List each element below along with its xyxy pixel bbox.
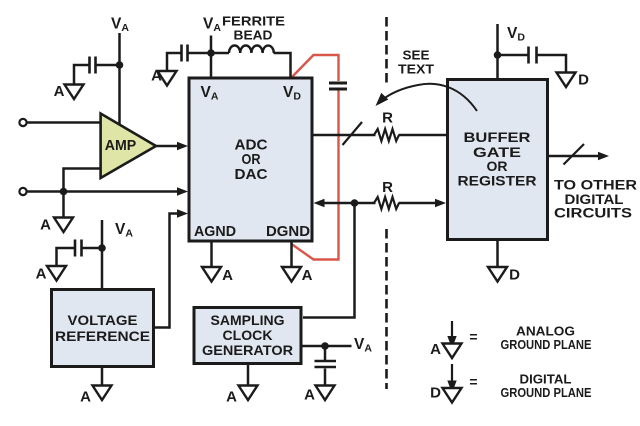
svg-text:GROUND PLANE: GROUND PLANE [501, 385, 592, 400]
svg-text:SEE: SEE [403, 48, 430, 63]
svg-text:A: A [430, 341, 441, 358]
svg-text:AMP: AMP [105, 137, 137, 154]
svg-text:DAC: DAC [235, 166, 268, 183]
svg-text:A: A [80, 389, 91, 406]
svg-text:=: = [469, 329, 477, 345]
svg-text:REFERENCE: REFERENCE [55, 328, 150, 344]
svg-text:A: A [222, 267, 233, 284]
svg-text:DGND: DGND [266, 223, 310, 240]
svg-text:=: = [469, 374, 477, 390]
svg-text:GENERATOR: GENERATOR [202, 342, 293, 358]
svg-text:R: R [382, 110, 393, 127]
svg-text:A: A [302, 267, 313, 284]
svg-text:BEAD: BEAD [234, 28, 273, 43]
svg-text:D: D [578, 72, 589, 89]
svg-text:CIRCUITS: CIRCUITS [554, 206, 632, 221]
svg-text:FERRITE: FERRITE [222, 14, 285, 29]
svg-text:GROUND PLANE: GROUND PLANE [501, 337, 592, 352]
svg-text:R: R [382, 179, 393, 196]
svg-text:SAMPLING: SAMPLING [211, 312, 285, 328]
svg-text:BUFFER: BUFFER [464, 129, 531, 145]
svg-text:A: A [151, 68, 162, 85]
svg-text:TEXT: TEXT [398, 62, 434, 77]
svg-text:REGISTER: REGISTER [458, 173, 537, 189]
svg-text:A: A [36, 266, 47, 283]
svg-text:A: A [226, 389, 237, 406]
svg-text:D: D [430, 385, 441, 402]
svg-text:TO OTHER: TO OTHER [554, 178, 637, 193]
svg-text:VOLTAGE: VOLTAGE [68, 312, 138, 328]
svg-text:A: A [40, 217, 51, 234]
svg-text:CLOCK: CLOCK [223, 327, 273, 343]
svg-text:AGND: AGND [194, 223, 236, 240]
svg-text:A: A [304, 387, 315, 404]
svg-text:D: D [509, 267, 520, 284]
svg-text:A: A [54, 83, 65, 100]
